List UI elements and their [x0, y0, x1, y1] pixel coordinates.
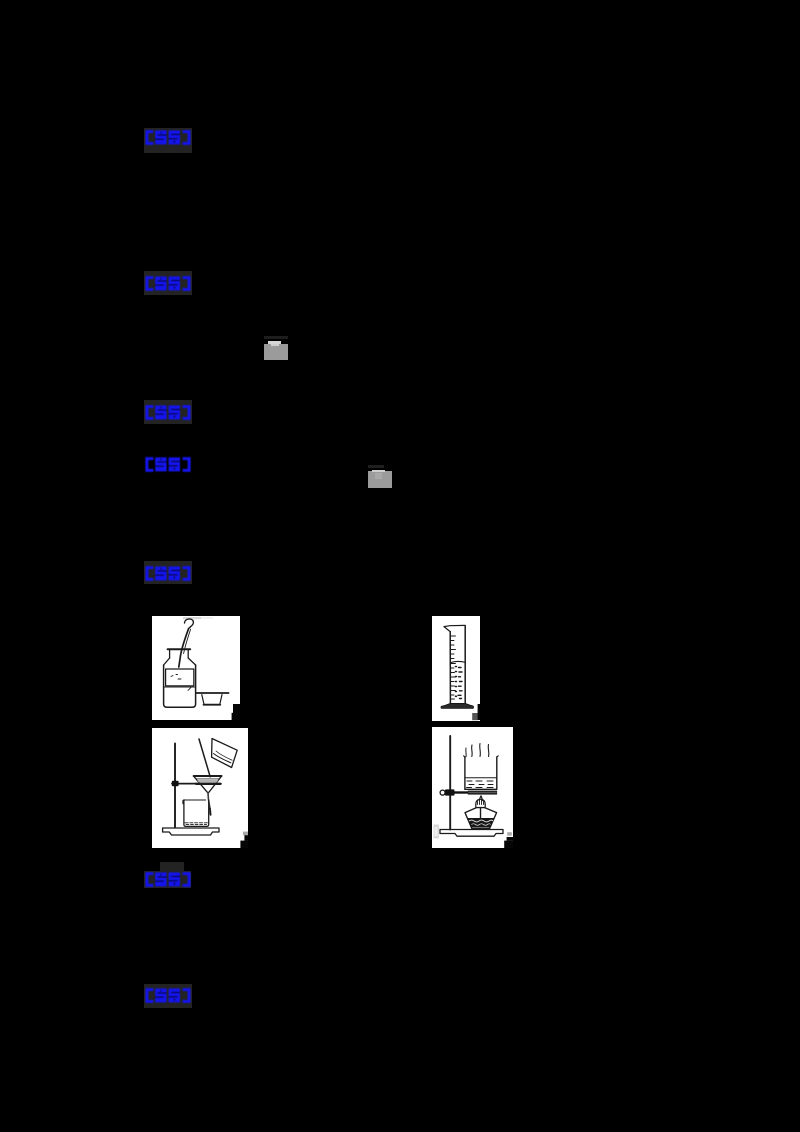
highlight box 1: [144, 128, 192, 153]
liquid dashes: [467, 781, 494, 788]
answer label 1: [144, 130, 192, 145]
corner label jia (partially visible): [232, 704, 240, 720]
highlight box 6: [144, 871, 192, 889]
clamp arm: [172, 783, 196, 785]
pouring beaker: [212, 739, 238, 768]
clamp knob: [172, 781, 179, 786]
answer label 4 (no highlight): [144, 457, 192, 472]
wick holder dome: [476, 799, 485, 804]
dish body: [202, 695, 222, 705]
answer label 6: [144, 872, 192, 887]
graduations: [451, 636, 456, 699]
bottle shoulder: [164, 658, 170, 665]
filter paper grey band: [197, 780, 218, 783]
funnel stem: [208, 793, 210, 809]
figure ding: evaporation heating setup: [432, 727, 513, 848]
liquid surface: [465, 777, 497, 779]
stand base: [163, 828, 219, 835]
stand base: [440, 830, 503, 837]
beaker: [465, 757, 497, 789]
funnel cone: [194, 777, 221, 793]
bottle neck: [169, 650, 171, 658]
figure yi: graduated cylinder: [432, 616, 480, 721]
corner label bing (partially visible): [240, 835, 248, 848]
label rect on bottle: [166, 669, 194, 686]
bottle mouth rim: [168, 648, 191, 650]
cylinder walls: [449, 632, 451, 704]
inline image A: [264, 336, 288, 360]
flame tip: [479, 796, 482, 801]
dropper bulb loop: [185, 619, 194, 629]
spout: [444, 625, 465, 626]
wire gauze bar: [468, 791, 497, 795]
filter paper edge: [196, 778, 219, 780]
liquid meniscus: [450, 661, 465, 662]
corner label ding (partially visible): [504, 837, 513, 848]
scale number marks: [456, 667, 463, 699]
figure bing: filtration setup: [152, 728, 248, 848]
figure jia: reagent bottle with dropper: [152, 616, 240, 720]
filtrate lines: [185, 822, 208, 824]
base: [441, 703, 474, 708]
highlight box 3: [144, 400, 192, 424]
highlight box 7: [144, 984, 192, 1008]
highlight notch above label 6: [160, 862, 184, 871]
stand pole: [174, 744, 176, 828]
watermark fragment left: [434, 825, 440, 839]
answer label 2: [144, 276, 192, 291]
faint scan smudge: [183, 617, 201, 619]
answer label 3: [144, 405, 192, 420]
glass rod: [199, 739, 210, 777]
answer label 5: [144, 566, 192, 581]
clamp ring: [440, 790, 445, 795]
funnel rim: [194, 775, 222, 777]
inline image B: [368, 464, 392, 488]
dish rim: [197, 692, 229, 694]
corner watermark fragment: [243, 832, 248, 836]
label specks: [171, 675, 181, 680]
corner watermark fragment: [507, 832, 512, 836]
corner label yi (partially visible): [472, 713, 478, 720]
lamp fuel: [467, 818, 494, 827]
iron ring under funnel: [196, 783, 221, 785]
highlight box 5: [144, 561, 192, 584]
steam wisps: [471, 745, 474, 757]
dropper stem: [179, 629, 189, 667]
liquid line: [164, 686, 196, 688]
receiving beaker: [184, 800, 209, 826]
answer label 7: [144, 988, 192, 1003]
alcohol lamp: [465, 796, 497, 829]
bottle body: [164, 665, 196, 707]
lamp body: [465, 808, 497, 829]
stand pole: [449, 736, 451, 830]
highlight box 2: [144, 271, 192, 295]
